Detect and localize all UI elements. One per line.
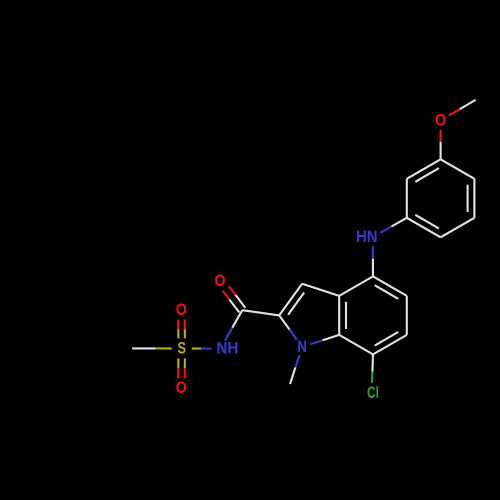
double bond C=O (carbonyl) (2nd line) — [223, 291, 240, 313]
double bond S=O (lower) — [177, 358, 179, 378]
aromatic bond C3a-C7a (ring fusion) (inner line) — [345, 302, 347, 329]
aromatic bond C6-C7 of indole benzo ring — [373, 335, 407, 355]
aromatic bond C1-C2 of methoxyphenyl — [441, 159, 475, 179]
bond S-CH3 (methanesulfonyl methyl) — [132, 347, 172, 349]
svg-text:O: O — [215, 272, 226, 290]
bond O-C1 (methoxy to phenyl ring) — [440, 130, 442, 160]
bond N1-C2 of indole — [279, 315, 297, 340]
aromatic bond C4-C5 of indole benzo ring (inner line) — [375, 285, 399, 299]
aromatic bond C5-C6 of indole benzo ring — [406, 296, 408, 335]
svg-text:Cl: Cl — [367, 384, 379, 402]
bond NH-S (sulfonamide) — [192, 347, 212, 349]
svg-text:NH: NH — [216, 340, 238, 358]
double bond C=O (carbonyl) — [229, 286, 246, 308]
aromatic bond C7-C7a of indole benzo ring — [339, 335, 373, 355]
double bond S=O (upper) (2nd line) — [177, 320, 179, 339]
bond C2-C(=O) — [242, 310, 279, 315]
aromatic bond C4-C5 of methoxyphenyl (inner line) — [415, 215, 439, 229]
aromatic bond C2-C3 of methoxyphenyl — [473, 179, 475, 218]
aromatic bond C3-C4 of methoxyphenyl — [441, 218, 475, 238]
bond O-CH3 (methoxy methyl) — [449, 100, 476, 116]
svg-text:O: O — [176, 301, 187, 319]
aromatic bond C4-C5 of indole benzo ring — [373, 276, 407, 296]
aromatic bond C5-C6 of methoxyphenyl — [406, 179, 408, 218]
aromatic bond C6-C1 of methoxyphenyl (inner line) — [415, 168, 439, 182]
bond N-C4 (anilino N to indole C4) — [372, 246, 374, 276]
aromatic bond C2=C3 of indole — [279, 284, 302, 316]
svg-text:HN: HN — [356, 228, 378, 246]
bond C3-C3a of indole — [302, 284, 339, 296]
bond C7-Cl — [372, 354, 373, 382]
bond N-C (anilino N to methoxyphenyl) — [381, 218, 407, 233]
aromatic bond C6-C1 of methoxyphenyl — [407, 159, 441, 179]
double bond S=O (upper) — [184, 320, 186, 339]
aromatic bond C2=C3 of indole (inner line) — [288, 293, 304, 315]
bond N1-CH3 (N-methyl) — [290, 355, 300, 384]
svg-text:O: O — [435, 111, 446, 129]
svg-text:S: S — [178, 339, 187, 357]
bond C(=O)-NH (amide) — [225, 310, 243, 341]
aromatic bond C3a-C7a (ring fusion) — [338, 296, 340, 335]
aromatic bond C4-C5 of methoxyphenyl — [407, 218, 441, 238]
bond N1-C7a of indole — [310, 335, 339, 344]
aromatic bond C3a-C4 of indole benzo ring — [339, 276, 373, 296]
aromatic bond C2-C3 of methoxyphenyl (inner line) — [467, 185, 469, 212]
double bond S=O (lower) (2nd line) — [184, 358, 186, 378]
svg-text:N: N — [297, 338, 307, 356]
aromatic bond C6-C7 of indole benzo ring (inner line) — [375, 332, 399, 346]
svg-text:O: O — [176, 379, 187, 397]
